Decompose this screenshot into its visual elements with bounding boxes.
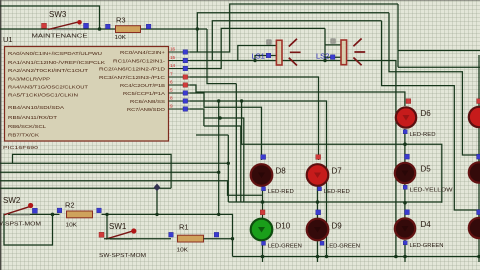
- svg-text:SW3: SW3: [49, 10, 67, 19]
- svg-text:RA2/AN2/T0CKI/INT/C1OUT: RA2/AN2/T0CKI/INT/C1OUT: [8, 68, 88, 73]
- wire bus row 128: [204, 118, 241, 202]
- wire D6 column verticals: [404, 129, 406, 218]
- wire top net right drop: [398, 4, 480, 67]
- wire SW2 R2 row: [4, 214, 233, 257]
- chip U1 body: [3, 35, 169, 150]
- LED D9 (off, green): [307, 210, 360, 249]
- svg-text:LED-GREEN: LED-GREEN: [410, 243, 444, 249]
- svg-text:U1: U1: [3, 35, 13, 44]
- wire LS1 lower pin: [255, 56, 276, 61]
- svg-text:PIC16F690: PIC16F690: [3, 145, 39, 150]
- wire D8 column verticals: [262, 186, 264, 218]
- wire bus row 118: [204, 118, 244, 202]
- svg-text:D10: D10: [276, 222, 291, 231]
- svg-text:8: 8: [170, 96, 173, 101]
- svg-text:LED-RED: LED-RED: [324, 189, 350, 195]
- resistor R2 10K: [57, 201, 101, 229]
- svg-text:D9: D9: [332, 222, 343, 231]
- svg-text:5: 5: [170, 88, 173, 93]
- wire pin15 row and riser: [190, 21, 396, 257]
- svg-text:14: 14: [170, 63, 176, 68]
- wire SW3 left: [0, 28, 207, 30]
- chip U1 right pin stubs with pin numbers 16,15,14,7,6,5,8,9: [169, 47, 191, 112]
- svg-text:D4: D4: [421, 220, 432, 229]
- svg-text:LS2: LS2: [316, 52, 329, 61]
- switch SW3: [32, 10, 89, 40]
- wire arrow row: [0, 188, 171, 214]
- wire pin16 row to staircase: [190, 4, 398, 52]
- wire pin5 to D8 anode: [190, 93, 262, 160]
- wire lower-left row 2: [0, 162, 228, 164]
- svg-text:D7: D7: [332, 167, 343, 176]
- wire R1 to bottom bus: [204, 238, 233, 240]
- svg-text:RB5/AN11/RX/DT: RB5/AN11/RX/DT: [8, 115, 57, 120]
- svg-text:SW1: SW1: [109, 222, 127, 231]
- svg-text:7: 7: [170, 72, 173, 77]
- wire pin15 drop: [207, 29, 236, 202]
- wire net R3 riser: [197, 13, 389, 52]
- svg-text:RA4/AN3/T1G/OSC2/CLKOUT: RA4/AN3/T1G/OSC2/CLKOUT: [8, 85, 88, 90]
- svg-text:RB4/AN10/SDI/SDA: RB4/AN10/SDI/SDA: [8, 105, 65, 110]
- svg-text:RA1/AN1/C12IN0-/VREF/ICSPCLK: RA1/AN1/C12IN0-/VREF/ICSPCLK: [8, 60, 106, 65]
- node junctions bottom bus: [261, 255, 265, 259]
- LED D7 (lit red): [307, 155, 350, 195]
- wire D7 column verticals: [317, 186, 319, 218]
- svg-text:LED-YELLOW: LED-YELLOW: [410, 187, 454, 193]
- svg-text:D6: D6: [421, 109, 432, 118]
- svg-text:10K: 10K: [115, 35, 127, 41]
- wire SW1 to R1: [104, 238, 171, 240]
- LED D5 (off, yellow): [395, 154, 454, 193]
- node junction SW1 feed: [105, 99, 328, 258]
- wire pin7 to D7 anode: [190, 77, 319, 160]
- svg-text:MAINTENANCE: MAINTENANCE: [32, 34, 89, 40]
- resistor R1 10K: [169, 223, 219, 254]
- wire net2 right chain to LED bank: [389, 13, 479, 162]
- LED D4 (off, green): [395, 210, 444, 249]
- svg-text:RC3/AN7/C12IN3-/P1C: RC3/AN7/C12IN3-/P1C: [99, 75, 166, 80]
- svg-text:LED-GREEN: LED-GREEN: [268, 243, 302, 249]
- wire lower-left row 1: [13, 154, 172, 188]
- LED right column top (lit red, clipped): [469, 99, 480, 128]
- svg-text:RC4/C2OUT/P1B: RC4/C2OUT/P1B: [120, 83, 165, 88]
- svg-text:6: 6: [170, 80, 173, 85]
- wire D6 cathode row: [242, 101, 442, 203]
- chip U1 right pin names: [99, 50, 166, 112]
- svg-text:15: 15: [170, 55, 176, 60]
- svg-text:SW-SPST-MOM: SW-SPST-MOM: [0, 222, 42, 228]
- svg-text:RC7/AN9/SDO: RC7/AN9/SDO: [127, 107, 166, 112]
- sounder LS1: [252, 39, 301, 66]
- svg-text:RB7/TX/CK: RB7/TX/CK: [8, 133, 40, 138]
- svg-text:D8: D8: [276, 167, 287, 176]
- svg-text:R3: R3: [116, 16, 126, 25]
- LED D8 (off, red): [251, 155, 294, 195]
- frame edge: [0, 0, 1, 270]
- node junction row118: [218, 116, 222, 120]
- LED right column bottom (off): [469, 210, 480, 238]
- LED D6 (lit red): [396, 99, 436, 138]
- svg-text:RA3/MCLR/VPP: RA3/MCLR/VPP: [8, 77, 50, 82]
- wire lower-left row 3: [0, 171, 219, 173]
- wire cathode row mid: [228, 135, 441, 202]
- svg-text:R1: R1: [179, 223, 189, 232]
- wire cathode drops D10 D9 D4: [263, 239, 480, 262]
- svg-text:SW2: SW2: [3, 196, 21, 205]
- wire bus row 137: [196, 134, 228, 136]
- svg-text:10K: 10K: [66, 223, 78, 229]
- svg-text:LED-RED: LED-RED: [268, 189, 294, 195]
- wire pin14 riser: [190, 28, 325, 68]
- svg-text:RC1/AN5/C12IN1-: RC1/AN5/C12IN1-: [113, 59, 166, 64]
- chip U1 left pin names: [8, 51, 106, 138]
- wire pin8 row to mid drop: [190, 101, 327, 257]
- svg-text:SW-SPST-MOM: SW-SPST-MOM: [99, 253, 147, 259]
- svg-text:LED-GREEN: LED-GREEN: [326, 243, 360, 249]
- node junction R2: [51, 213, 55, 217]
- svg-text:RA0/AN0/C1IN+/ICSPDAT/ULPWU: RA0/AN0/C1IN+/ICSPDAT/ULPWU: [8, 51, 102, 56]
- svg-text:RC6/AN8/SS: RC6/AN8/SS: [130, 99, 165, 104]
- wire top-left rail: [0, 6, 100, 29]
- svg-text:RB6/SCK/SCL: RB6/SCK/SCL: [8, 124, 47, 129]
- svg-text:9: 9: [170, 104, 173, 109]
- LED D10 (lit green): [251, 210, 302, 249]
- svg-text:RC5/CCP1/P1A: RC5/CCP1/P1A: [123, 91, 166, 96]
- svg-text:RC2/AN6/C12IN2-/P1D: RC2/AN6/C12IN2-/P1D: [99, 67, 166, 72]
- wire net3 right chain to LED bank: [382, 21, 479, 218]
- junction dots mid rows: [403, 142, 407, 146]
- switch SW1: [99, 222, 147, 259]
- sounder LS2: [316, 39, 365, 66]
- svg-text:RC0/AN4/C2IN+: RC0/AN4/C2IN+: [120, 50, 165, 55]
- svg-text:R2: R2: [65, 201, 75, 210]
- svg-text:RA5/T1CKI/OSC1/CLKIN: RA5/T1CKI/OSC1/CLKIN: [8, 93, 78, 98]
- switch SW2: [0, 196, 42, 228]
- wire LS2 pin stubs: [325, 45, 341, 57]
- wire pin6 to D6 anode: [190, 85, 405, 106]
- wire pin9 jog: [190, 109, 204, 118]
- LED right column middle (off): [469, 154, 480, 182]
- svg-text:16: 16: [170, 47, 176, 52]
- wire LS1 feed: [238, 46, 277, 61]
- svg-text:D5: D5: [421, 165, 432, 174]
- wire lower-left row 4: [0, 181, 263, 195]
- wire right LED column verticals: [478, 55, 480, 218]
- wire LS2 feed riser: [324, 28, 326, 60]
- svg-text:LS1: LS1: [252, 52, 265, 61]
- node junction SW3/R3: [98, 27, 102, 31]
- svg-text:LED-RED: LED-RED: [410, 132, 436, 138]
- terminal arrow node: [154, 184, 161, 192]
- resistor R3 10K: [106, 16, 151, 42]
- svg-text:10K: 10K: [177, 248, 189, 254]
- wire bottom bus: [233, 256, 480, 258]
